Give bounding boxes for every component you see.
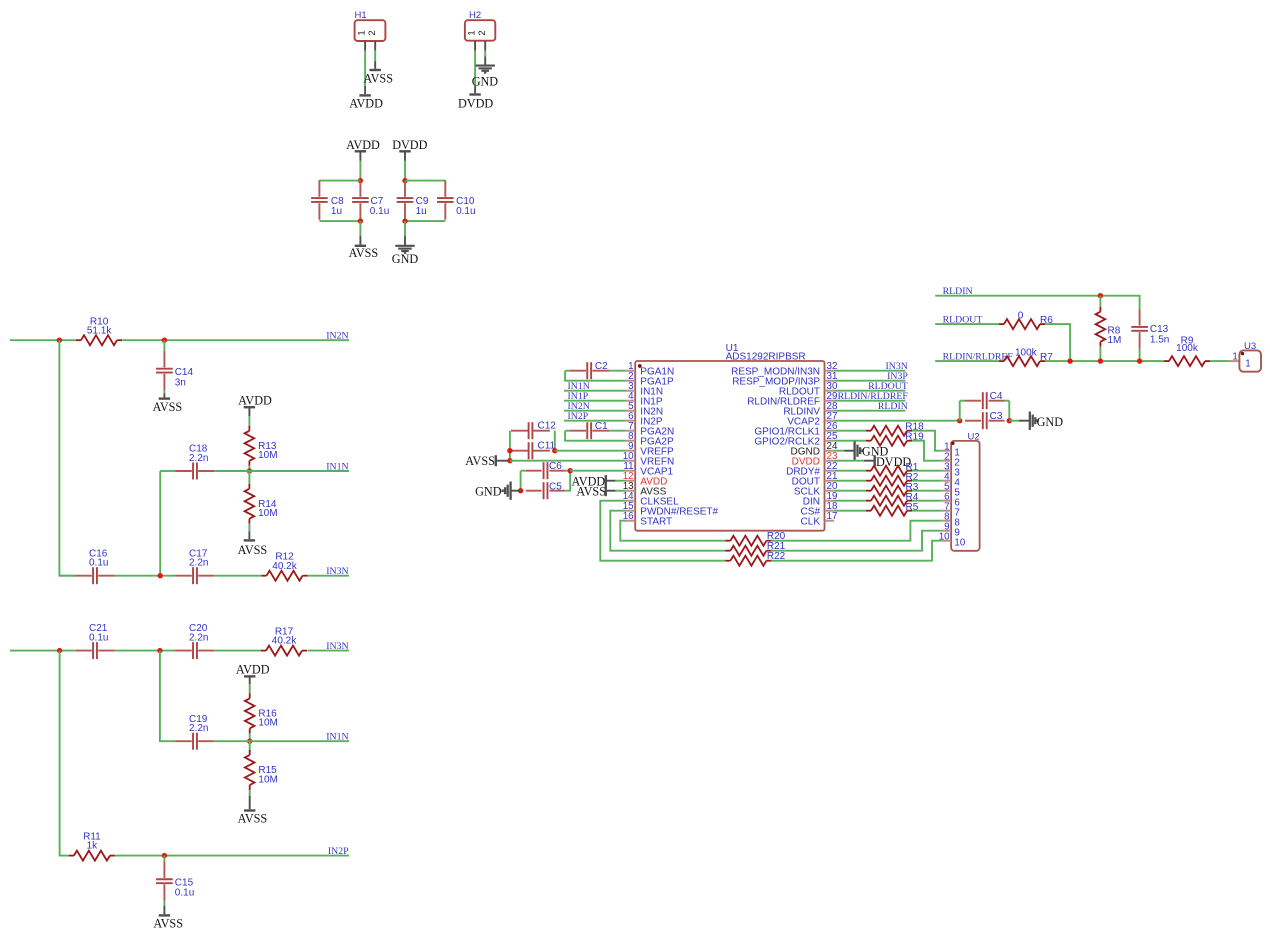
svg-text:1M: 1M: [1108, 335, 1122, 346]
U2 pin 10: [939, 532, 966, 549]
svg-text:RLDIN: RLDIN: [878, 401, 908, 412]
resistor R3: [866, 482, 919, 496]
node IN3N label: [885, 361, 907, 372]
connector H1: [355, 10, 386, 41]
wire R13 to IN1N row: [248, 466, 250, 471]
svg-text:AVSS: AVSS: [238, 812, 268, 826]
wire IN1N row: [160, 470, 349, 472]
wire C10 branch bottom: [405, 220, 445, 222]
resistor R7 100k: [999, 347, 1053, 366]
power flag AVDD (decoupling): [346, 138, 380, 161]
wire IN2N pin5: [564, 410, 626, 412]
node DVDD rail top: [402, 178, 407, 183]
node IN3N junction: [158, 573, 163, 578]
U1 pin 2 PGA1P: [626, 371, 674, 387]
wire H2 pin1 to DVDD: [474, 41, 476, 93]
wire C12 left vertical: [509, 431, 511, 461]
svg-text:0.1u: 0.1u: [89, 632, 108, 643]
wire VCAP1 pin11: [570, 470, 625, 472]
wire R20 to U2 pin8: [771, 521, 941, 541]
U1 pin 12 AVDD: [623, 471, 668, 487]
wire IN1N pin3: [564, 390, 626, 392]
wire PGA1P loop pin2: [565, 371, 626, 381]
svg-text:C1: C1: [595, 421, 608, 432]
svg-text:START: START: [640, 516, 672, 527]
node C11 left junction: [507, 448, 512, 453]
resistor R10 51.1k: [76, 316, 122, 345]
wire R8 top: [1099, 296, 1101, 307]
wire AVDD rail: [359, 161, 361, 181]
wire R15 top: [249, 741, 251, 751]
resistor R22: [725, 551, 785, 566]
svg-text:AVSS: AVSS: [238, 543, 268, 557]
power flag AVDD (R16): [236, 662, 270, 684]
svg-text:51.1k: 51.1k: [87, 326, 112, 337]
wire R4 to U2 pin6: [912, 500, 942, 502]
node IN2N / C14 junction: [162, 338, 167, 343]
wire pin22 to R1: [834, 470, 866, 472]
wire C10 branch top: [405, 180, 445, 182]
wire GPIO1 pin26 to R18: [834, 430, 866, 432]
wire R18 to U2 pin1: [912, 431, 942, 451]
svg-text:C5: C5: [549, 481, 562, 492]
svg-text:AVDD: AVDD: [238, 394, 272, 408]
power flag AVSS (R15): [238, 790, 268, 826]
U2 pin 7: [942, 502, 960, 519]
power flag AVDD (R13): [238, 394, 272, 417]
wire IN2P vertical: [60, 651, 69, 856]
U1 pin 10 VREFN: [623, 451, 675, 467]
capacitor C12: [511, 421, 556, 440]
wire C4 right vertical: [1005, 401, 1010, 421]
U1 pin 24 DGND: [791, 441, 838, 457]
wire R5 to U2 pin7: [912, 510, 942, 512]
power flag DVDD (pin23): [834, 455, 911, 469]
wire RLDOUT row: [935, 323, 999, 325]
capacitor C5: [526, 481, 565, 499]
power flag DVDD (H2 pin1): [458, 95, 493, 111]
node lower-left junction: [57, 648, 62, 653]
node RLDIN / R8 junction: [1098, 293, 1103, 298]
svg-text:AVSS: AVSS: [153, 917, 183, 931]
U1 pin 32 RESP_MODN/IN3N: [731, 361, 837, 377]
resistor R18: [866, 421, 924, 435]
svg-text:17: 17: [827, 511, 838, 522]
node IN2N pin5 label: [568, 401, 590, 412]
resistor R12 40.2k: [262, 552, 308, 581]
resistor R9 100k: [1164, 335, 1210, 366]
wire PGA2P loop pin8: [565, 431, 626, 441]
svg-text:10M: 10M: [258, 718, 277, 729]
wire net RLDOUT pin30: [834, 390, 905, 392]
wire C8 branch bottom: [319, 220, 360, 222]
wire GPIO2 pin25 to R19: [834, 440, 866, 442]
wire PWDN#/RESET# pin15 loop: [610, 511, 725, 551]
svg-text:GND: GND: [475, 485, 502, 499]
svg-text:IN1N: IN1N: [326, 462, 348, 473]
U1 pin 23 DVDD: [792, 451, 838, 467]
U2 pin 1: [942, 442, 960, 459]
U1 pin 25 GPIO2/RCLK2: [754, 431, 838, 447]
svg-text:2.2n: 2.2n: [189, 723, 208, 734]
wire net RLDIN/RLDREF pin29: [834, 400, 905, 402]
U1 pin 15 PWDN#/RESET#: [623, 501, 719, 517]
node RLDIN/RLDREF label: [943, 351, 1014, 362]
svg-text:C12: C12: [538, 421, 557, 432]
resistor R15 10M: [245, 750, 278, 790]
svg-text:0.1u: 0.1u: [370, 206, 389, 217]
U1 pin 9 VREFP: [626, 441, 674, 457]
node IN2P label: [328, 846, 349, 857]
node IN1N junction: [247, 468, 252, 473]
resistor R20: [725, 531, 785, 546]
svg-text:DVDD: DVDD: [458, 96, 493, 110]
capacitor C13 1.5n: [1131, 309, 1169, 348]
node RLDIN/RLDREF label: [838, 391, 909, 402]
U1 pin 21 DOUT: [792, 471, 838, 487]
capacitor C16 0.1u: [75, 548, 114, 584]
connector U3: [1230, 341, 1261, 372]
node IN1P pin4 label: [568, 391, 589, 402]
node C20 junction: [157, 648, 162, 653]
U1 pin 4 IN1P: [626, 391, 663, 407]
svg-text:AVSS: AVSS: [363, 71, 393, 85]
power flag AVSS (C15): [153, 901, 183, 931]
U1 pin 29 RLDIN/RLDREF: [747, 391, 837, 407]
wire C6 right vertical: [565, 471, 570, 491]
wire C6 left vertical: [521, 471, 526, 491]
svg-text:100k: 100k: [1015, 347, 1038, 358]
ground GND (DGND pin24): [834, 442, 888, 460]
svg-text:AVDD: AVDD: [349, 97, 383, 111]
U1 pin 14 CLKSEL: [623, 491, 679, 507]
wire IN2N vertical: [59, 340, 75, 576]
capacitor C17 2.2n: [175, 548, 214, 584]
capacitor C18 2.2n: [175, 444, 214, 480]
wire AVDD to R13: [248, 416, 250, 426]
U1 pin 17 CLK: [801, 511, 838, 527]
svg-text:2: 2: [367, 30, 378, 35]
svg-text:AVSS: AVSS: [465, 454, 495, 468]
capacitor C20 2.2n: [175, 623, 214, 659]
U1 pin 30 RLDOUT: [779, 381, 838, 397]
svg-text:AVSS: AVSS: [153, 400, 183, 414]
svg-text:IN1N: IN1N: [326, 732, 348, 743]
resistor R6 0: [999, 310, 1053, 329]
resistor R5: [866, 502, 919, 516]
capacitor C7: [352, 180, 389, 219]
wire net IN3N pin32: [834, 370, 905, 372]
node RLDREF / R6 junction: [1067, 358, 1072, 363]
U1 pin 11 VCAP1: [623, 461, 673, 477]
node RLDREF / R8 junction: [1098, 358, 1103, 363]
U1 pin 18 CS#: [801, 501, 838, 517]
resistor R14 10M: [245, 484, 278, 524]
svg-text:AVSS: AVSS: [349, 246, 379, 260]
svg-text:RLDOUT: RLDOUT: [943, 314, 983, 325]
svg-text:1u: 1u: [416, 206, 427, 217]
U1 pin 16 START: [623, 511, 672, 527]
svg-text:RLDIN: RLDIN: [943, 286, 973, 297]
U2 pin 8: [942, 512, 961, 529]
svg-text:R7: R7: [1040, 352, 1053, 363]
svg-text:100k: 100k: [1176, 343, 1199, 354]
U1 pin 8 PGA2P: [626, 431, 674, 447]
svg-text:1u: 1u: [331, 206, 342, 217]
wire C8 branch top: [319, 180, 360, 182]
node C3 right junction: [1007, 418, 1012, 423]
wire IN3N lower row: [10, 650, 349, 652]
node RLDREF / C13 junction: [1137, 358, 1142, 363]
capacitor C15 0.1u: [156, 862, 194, 901]
svg-text:40.2k: 40.2k: [272, 636, 297, 647]
U2 pin 2: [942, 452, 960, 469]
capacitor C11: [511, 441, 556, 460]
svg-text:2.2n: 2.2n: [189, 632, 208, 643]
U1 pin 28 RLDINV: [783, 401, 838, 417]
wire R8 bottom: [1099, 347, 1101, 361]
wire VREFN pin10: [510, 460, 626, 462]
resistor R17 40.2k: [261, 627, 307, 656]
capacitor C14 3n: [156, 351, 193, 390]
node RLDIN label: [943, 286, 973, 297]
node RLDOUT label: [868, 381, 908, 392]
wire VCAP2 pin27: [834, 420, 960, 422]
svg-text:10M: 10M: [258, 450, 277, 461]
power flag AVSS (decoupling): [349, 221, 379, 260]
wire IN2P row: [115, 855, 349, 857]
wire R3 to U2 pin5: [912, 490, 942, 492]
wire CLKSEL pin14 loop: [600, 501, 725, 561]
resistor R19: [866, 431, 924, 445]
svg-text:0.1u: 0.1u: [89, 558, 108, 569]
node IN1N pin3 label: [568, 381, 590, 392]
connector U2 body: [951, 431, 980, 550]
connector H2: [465, 10, 495, 41]
node IN1N lower junction: [247, 739, 252, 744]
node IN2N label: [326, 331, 348, 342]
node RLDOUT label: [943, 314, 983, 325]
wire H2 pin2 to GND: [484, 41, 486, 65]
node IN2P pin6 label: [568, 411, 589, 422]
U2 pin 6: [942, 492, 961, 509]
capacitor C10: [437, 180, 476, 219]
U1 pin 7 PGA2N: [626, 421, 675, 437]
wire H1 pin2 to AVSS: [374, 41, 376, 69]
svg-text:40.2k: 40.2k: [272, 561, 297, 572]
wire C14 top: [163, 340, 165, 351]
op-amp U1 ADS1292RIPBSR body: [635, 343, 824, 531]
svg-text:AVDD: AVDD: [346, 138, 380, 152]
svg-text:1.5n: 1.5n: [1150, 334, 1169, 345]
U1 pin 31 RESP_MODP/IN3P: [732, 371, 837, 387]
U1 pin 13 AVSS: [623, 481, 667, 497]
svg-text:GND: GND: [472, 74, 499, 88]
svg-text:C2: C2: [595, 361, 608, 372]
node GND rail bottom: [402, 218, 407, 223]
resistor R1: [866, 462, 919, 476]
power flag AVDD (H1 pin1): [349, 95, 383, 110]
power flag AVSS (VREFN): [465, 454, 510, 468]
wire C18 down to IN3N row: [159, 471, 161, 576]
wire C12 right vertical: [554, 431, 556, 451]
node IN2P junction: [162, 853, 167, 858]
wire PGA1N pin1: [565, 370, 626, 372]
svg-text:2: 2: [477, 30, 488, 35]
wire R14 top: [248, 471, 250, 484]
wire R22 to U2 pin10: [771, 541, 941, 561]
power flag AVDD (pin12): [572, 475, 626, 489]
wire R16 to IN1N row: [249, 733, 251, 741]
wire R1 to U2 pin3: [912, 470, 942, 472]
U1 pin 5 IN2N: [626, 401, 663, 417]
wire pin21 to R2: [834, 480, 866, 482]
power flag AVSS (H1 pin2): [363, 70, 393, 85]
power flag AVSS (C14): [153, 390, 183, 414]
svg-text:C3: C3: [990, 411, 1003, 422]
svg-text:AVDD: AVDD: [236, 662, 270, 676]
U2 pin 4: [942, 472, 961, 489]
ground GND (H2 pin2): [472, 66, 499, 89]
U1 pin 6 IN2P: [626, 411, 663, 427]
svg-text:IN3N: IN3N: [326, 566, 348, 577]
wire IN1N lower row: [215, 740, 349, 742]
node AVDD rail top: [358, 178, 363, 183]
node IN3P label: [887, 371, 908, 382]
capacitor C8: [311, 180, 344, 219]
wire PGA2N pin7: [565, 430, 626, 432]
resistor R21: [725, 541, 785, 556]
wire AVDD to R16: [249, 684, 251, 693]
resistor R2: [866, 472, 919, 486]
wire VREFP pin9: [555, 450, 626, 452]
wire IN1P pin4: [564, 400, 626, 402]
svg-text:C6: C6: [549, 461, 562, 472]
capacitor C3: [965, 411, 1005, 429]
wire RLDIN/RLDREF row: [935, 360, 1230, 362]
wire START pin16 loop: [620, 521, 725, 541]
node IN1N label: [326, 462, 348, 473]
wire RLDIN row: [935, 296, 1139, 310]
svg-text:IN2P: IN2P: [568, 411, 589, 422]
wire pin20 to R3: [834, 490, 866, 492]
svg-text:10: 10: [954, 538, 965, 549]
resistor R11 1k: [69, 832, 115, 861]
wire IN2P pin6: [564, 420, 626, 422]
svg-text:C4: C4: [990, 391, 1003, 402]
ground GND (decoupling): [392, 221, 419, 266]
svg-text:0: 0: [1018, 310, 1024, 321]
wire C20 down to IN1N row: [160, 651, 176, 742]
resistor R8 1M: [1096, 307, 1122, 347]
wire R21 to U2 pin9: [771, 531, 941, 551]
svg-text:10: 10: [939, 532, 950, 543]
resistor R13 10M: [245, 426, 278, 466]
wire H1 pin1 to AVDD: [364, 41, 366, 94]
svg-text:0.1u: 0.1u: [456, 206, 475, 217]
capacitor C2: [570, 361, 609, 379]
wire C13 bottom: [1139, 349, 1141, 362]
node IN3N lower label: [326, 641, 348, 652]
ground GND (C3): [1009, 412, 1063, 430]
node C5 left junction: [518, 488, 523, 493]
wire R2 to U2 pin4: [912, 480, 942, 482]
U1 pin 26 GPIO1/RCLK1: [754, 421, 838, 437]
svg-text:1: 1: [1232, 352, 1237, 363]
svg-text:IN2P: IN2P: [328, 846, 349, 857]
svg-text:IN2N: IN2N: [326, 331, 348, 342]
wire net IN3P pin31: [834, 380, 905, 382]
U1 pin 20 SCLK: [794, 481, 838, 497]
power flag AVSS (R14): [238, 524, 268, 557]
capacitor C19 2.2n: [175, 714, 214, 750]
svg-text:2.2n: 2.2n: [189, 558, 208, 569]
svg-text:GND: GND: [392, 252, 419, 266]
svg-text:CLK: CLK: [801, 516, 821, 527]
svg-text:AVSS: AVSS: [576, 484, 606, 498]
node VREFN junction: [507, 458, 512, 463]
U1 pin 27 VCAP2: [787, 411, 837, 427]
wire IN3N row: [59, 575, 349, 577]
wire R19 to U2 pin2: [912, 441, 942, 461]
U2 pin 5: [942, 482, 961, 499]
node RLDIN label: [878, 401, 908, 412]
svg-text:10M: 10M: [258, 508, 277, 519]
wire R6 to RLDREF row: [1045, 324, 1070, 361]
wire net RLDIN pin28: [834, 410, 905, 412]
U1 pin 19 DIN: [803, 491, 838, 507]
node C11 right junction: [552, 448, 557, 453]
svg-text:10M: 10M: [258, 774, 277, 785]
wire C4 left vertical: [960, 401, 965, 421]
svg-text:DVDD: DVDD: [392, 138, 427, 152]
U1 pin 1 PGA1N: [626, 361, 675, 377]
resistor R4: [866, 492, 919, 506]
capacitor C4: [965, 391, 1005, 409]
capacitor C6: [526, 461, 565, 479]
resistor R16 10M: [245, 693, 278, 733]
capacitor C21 0.1u: [75, 623, 114, 659]
power flag AVSS (pin13): [576, 484, 625, 498]
svg-text:1k: 1k: [87, 841, 99, 852]
ground GND (C5): [475, 482, 521, 500]
node C3 left junction: [957, 418, 962, 423]
node VCAP1 junction: [568, 468, 573, 473]
U1 pin 22 DRDY#: [786, 461, 837, 477]
U2 pin 9: [942, 522, 960, 539]
capacitor C9: [397, 180, 429, 219]
U1 pin 3 IN1N: [626, 381, 663, 397]
wire IN2N row: [10, 339, 349, 341]
node AVSS rail bottom: [358, 218, 363, 223]
wire C15 top: [163, 856, 165, 862]
capacitor C1: [570, 421, 609, 439]
node IN1N lower label: [326, 732, 348, 743]
node IN2N left junction: [57, 338, 62, 343]
svg-text:0.1u: 0.1u: [175, 888, 194, 899]
wire pin19 to R4: [834, 500, 866, 502]
power flag DVDD (decoupling): [392, 138, 427, 161]
node IN3N label: [326, 566, 348, 577]
svg-text:2.2n: 2.2n: [189, 453, 208, 464]
svg-text:1: 1: [1245, 358, 1250, 369]
wire DVDD rail: [404, 161, 406, 181]
svg-text:IN3N: IN3N: [326, 641, 348, 652]
svg-text:3n: 3n: [175, 377, 186, 388]
U2 pin 3: [942, 462, 961, 479]
wire pin18 to R5: [834, 510, 866, 512]
svg-text:GND: GND: [1037, 415, 1064, 429]
